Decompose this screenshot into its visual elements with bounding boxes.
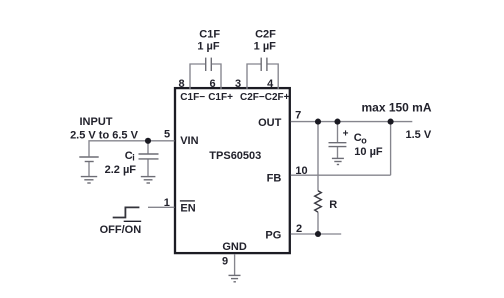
svg-text:9: 9: [222, 255, 228, 267]
svg-text:10: 10: [295, 165, 307, 177]
svg-text:5: 5: [164, 129, 170, 141]
svg-text:2: 2: [296, 223, 302, 235]
svg-text:+: +: [343, 129, 349, 140]
svg-text:2.2 µF: 2.2 µF: [105, 164, 137, 176]
svg-text:3: 3: [235, 78, 241, 90]
svg-text:8: 8: [179, 78, 185, 90]
svg-text:GND: GND: [222, 241, 247, 253]
svg-text:i: i: [132, 152, 135, 162]
svg-text:1 µF: 1 µF: [254, 41, 277, 53]
svg-text:max 150 mA: max 150 mA: [361, 101, 431, 115]
svg-text:INPUT: INPUT: [80, 116, 113, 128]
svg-text:EN: EN: [180, 203, 195, 215]
svg-text:C2F−C2F+: C2F−C2F+: [240, 92, 290, 103]
svg-text:1.5 V: 1.5 V: [406, 129, 432, 141]
svg-text:2.5 V to 6.5 V: 2.5 V to 6.5 V: [70, 130, 139, 142]
svg-text:C1F: C1F: [199, 29, 220, 41]
svg-text:6: 6: [209, 78, 215, 90]
svg-text:C1F+: C1F+: [208, 92, 233, 103]
svg-text:7: 7: [295, 110, 301, 122]
svg-text:TPS60503: TPS60503: [209, 150, 261, 162]
svg-text:R: R: [329, 199, 337, 211]
svg-text:VIN: VIN: [180, 135, 198, 147]
svg-text:PG: PG: [265, 230, 281, 242]
svg-text:4: 4: [267, 78, 274, 90]
svg-text:1 µF: 1 µF: [197, 41, 220, 53]
svg-text:OUT: OUT: [258, 117, 282, 129]
svg-text:10 µF: 10 µF: [354, 146, 383, 158]
svg-text:o: o: [361, 136, 367, 146]
svg-text:FB: FB: [267, 172, 282, 184]
svg-text:OFF/ON: OFF/ON: [100, 224, 142, 236]
svg-text:1: 1: [164, 197, 170, 209]
svg-text:C2F: C2F: [255, 29, 276, 41]
svg-text:C1F−: C1F−: [180, 92, 205, 103]
